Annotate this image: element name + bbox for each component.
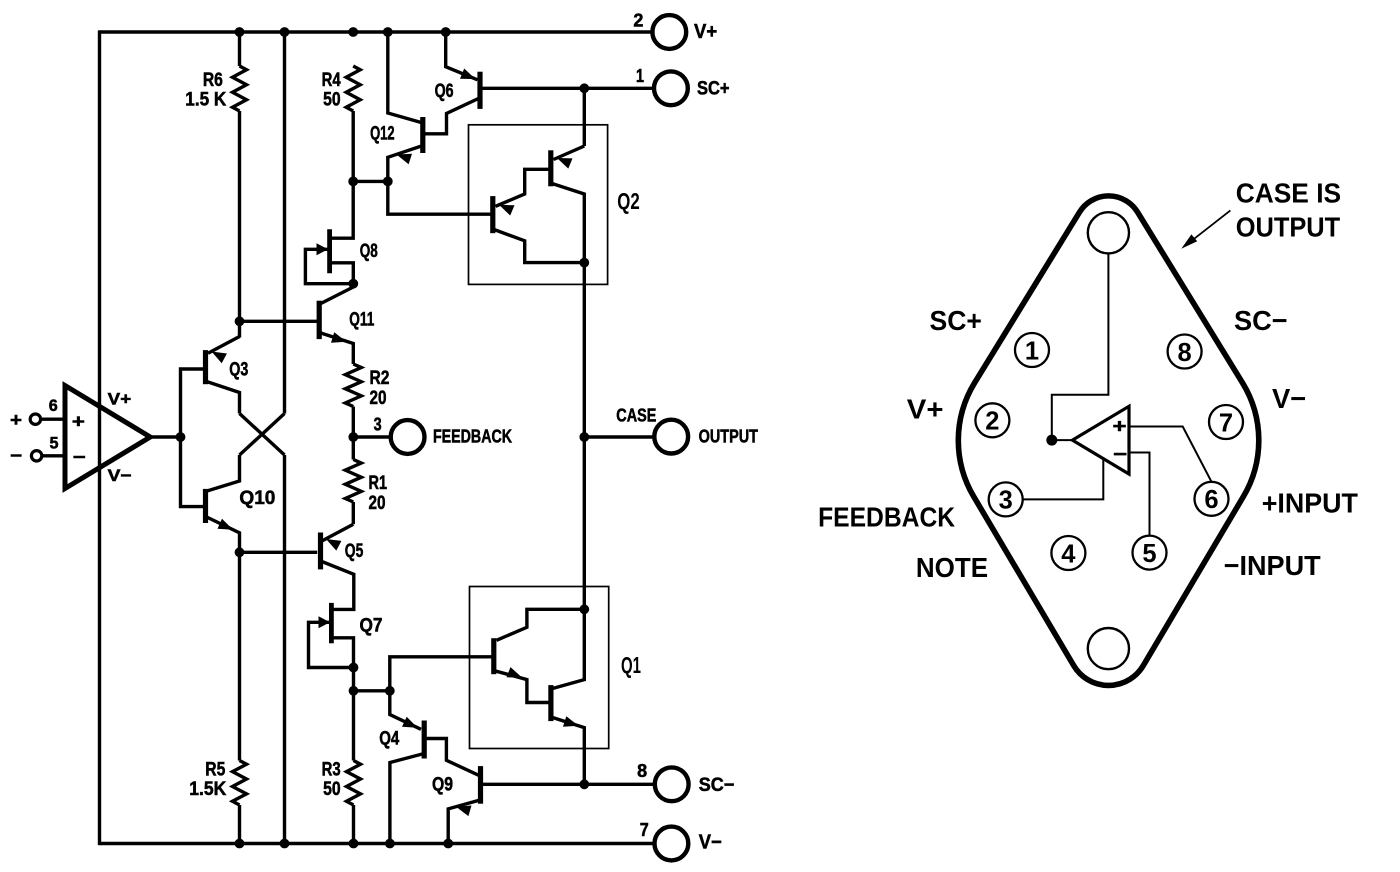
arrow Q1b emitter xyxy=(563,716,579,727)
label Q10 xyxy=(239,488,275,509)
wire rail2 upper xyxy=(283,32,286,414)
svg-text:Q9: Q9 xyxy=(432,775,453,796)
transistor Q1a bar xyxy=(491,638,496,674)
transistor Q8 channel bar xyxy=(327,229,332,273)
terminal pin 3 FEEDBACK xyxy=(374,415,425,454)
svg-text:3: 3 xyxy=(999,487,1013,515)
wire V- bottom rail xyxy=(100,842,656,845)
svg-text:Q7: Q7 xyxy=(360,616,383,637)
wire case to opamp xyxy=(1052,253,1109,440)
terminal pin 2 V+ xyxy=(633,11,686,49)
node opamp out junction xyxy=(176,432,186,442)
wire Q7 gate loop xyxy=(309,622,354,667)
wire R5 top xyxy=(238,552,241,760)
wire Q10 emitter xyxy=(207,517,240,552)
wire R5 bottom xyxy=(238,805,241,844)
svg-text:R3: R3 xyxy=(322,759,341,780)
svg-text:SC−: SC− xyxy=(699,775,735,796)
arrow Q8 gate xyxy=(317,243,329,255)
node Q4 junction xyxy=(385,686,395,696)
svg-text:2: 2 xyxy=(633,11,643,31)
arrow Q4 emitter xyxy=(402,717,418,728)
svg-text:Q10: Q10 xyxy=(239,488,275,509)
label CASE xyxy=(616,406,656,426)
resistor R4 xyxy=(346,66,360,111)
pin 5 xyxy=(1133,536,1167,570)
wire Q5 base xyxy=(240,551,318,554)
pin 8 xyxy=(1168,335,1202,369)
svg-text:−: − xyxy=(10,446,22,466)
svg-text:SC+: SC+ xyxy=(697,79,730,100)
node feedback junction xyxy=(348,432,358,442)
transistor Q3 bar xyxy=(203,350,208,384)
wire Q4 collector xyxy=(390,754,424,844)
node rail2 bottom xyxy=(280,839,290,849)
label pkg -INPUT xyxy=(1224,550,1321,581)
arrow Q7 gate xyxy=(319,616,331,628)
label R5 value 1.5K xyxy=(189,779,226,800)
arrow Q11 emitter xyxy=(331,332,347,343)
svg-text:V−: V− xyxy=(1272,383,1306,414)
wire cross D2 xyxy=(240,414,285,456)
node opamp apex dot xyxy=(1046,435,1057,446)
svg-text:2: 2 xyxy=(985,408,999,436)
node SC- junction xyxy=(579,779,589,789)
svg-text:R6: R6 xyxy=(203,70,223,91)
box Q1 xyxy=(470,587,609,749)
resistor R3 xyxy=(347,761,361,806)
wire bias link xyxy=(354,689,390,692)
svg-text:R1: R1 xyxy=(369,473,388,494)
svg-text:FEEDBACK: FEEDBACK xyxy=(433,426,512,447)
node R4 top xyxy=(348,27,358,37)
mounting hole top xyxy=(1088,212,1129,253)
label opamp V- xyxy=(108,466,132,485)
label OUTPUT pkg xyxy=(1236,211,1341,242)
wire Q10 base xyxy=(181,437,205,507)
wire Q2a base to Q2b xyxy=(496,169,551,206)
wire Q12 emitter xyxy=(388,146,422,181)
label opamp - xyxy=(73,447,86,467)
label Q1 xyxy=(621,652,641,678)
label V+ xyxy=(694,21,717,43)
svg-text:V+: V+ xyxy=(694,21,717,43)
wire Q1b emitter xyxy=(553,718,585,785)
transistor Q5 bar xyxy=(318,533,323,570)
svg-text:FEEDBACK: FEEDBACK xyxy=(818,501,955,532)
arrow Q1a emitter xyxy=(507,667,523,677)
terminal pin 7 V- xyxy=(640,820,689,860)
arrow Q6 emitter xyxy=(460,69,476,80)
wire Q2b collector xyxy=(494,230,584,263)
label Q2 xyxy=(617,188,640,214)
svg-text:Q12: Q12 xyxy=(370,123,395,144)
svg-text:V+: V+ xyxy=(907,394,944,425)
label pkg SC- xyxy=(1234,305,1288,336)
svg-text:7: 7 xyxy=(640,820,649,840)
label Q5 xyxy=(345,541,364,562)
pin 6 xyxy=(1195,482,1229,516)
wire Q1a collector xyxy=(497,609,585,640)
svg-text:50: 50 xyxy=(323,779,341,800)
transistor Q1b bar xyxy=(548,685,553,721)
label FEEDBACK xyxy=(433,426,512,447)
svg-text:OUTPUT: OUTPUT xyxy=(1236,211,1341,242)
label pin 6 xyxy=(49,396,58,415)
wire Q5 emitter xyxy=(322,524,353,541)
svg-text:+: + xyxy=(10,410,22,430)
svg-text:1.5K: 1.5K xyxy=(189,779,226,800)
op-amp U1 triangle xyxy=(65,386,150,489)
svg-text:CASE: CASE xyxy=(616,406,656,426)
wire Q5 collector xyxy=(322,562,354,610)
svg-text:V+: V+ xyxy=(108,389,132,408)
wire SC+ lead xyxy=(482,87,655,90)
svg-text:Q5: Q5 xyxy=(345,541,364,562)
label pin 5 xyxy=(50,433,59,452)
label R6 xyxy=(203,70,223,91)
node output junction xyxy=(579,432,589,442)
svg-text:R2: R2 xyxy=(370,368,390,389)
wire apex link xyxy=(1052,439,1073,441)
node Q8 drain junction xyxy=(348,177,358,187)
resistor R2 xyxy=(345,364,361,407)
wire rail2 lower xyxy=(283,455,286,844)
wire opamp output xyxy=(150,435,180,438)
wire Q9 emitter xyxy=(448,800,482,844)
wire R2-R1 link xyxy=(352,407,355,460)
label opamp V+ xyxy=(108,389,132,408)
svg-text:Q11: Q11 xyxy=(349,309,374,330)
svg-text:8: 8 xyxy=(1178,339,1192,367)
svg-text:1: 1 xyxy=(636,66,644,86)
svg-text:−: − xyxy=(1113,445,1127,466)
wire noninv input xyxy=(41,418,65,421)
wire Q3 collector xyxy=(207,382,240,414)
wire Q3 emitter xyxy=(208,337,240,354)
node R5 bottom xyxy=(235,839,245,849)
node Q12 top xyxy=(383,27,393,37)
label CASE IS xyxy=(1236,177,1341,208)
op-amp input - terminal xyxy=(10,446,42,466)
wire Q9 collector xyxy=(483,783,656,786)
svg-text:50: 50 xyxy=(323,89,341,110)
wire Q3 base xyxy=(181,369,206,437)
svg-text:V−: V− xyxy=(699,832,722,854)
label Q7 xyxy=(360,616,383,637)
wire inv input xyxy=(42,454,65,457)
svg-text:−INPUT: −INPUT xyxy=(1224,550,1321,581)
wire Q7 source xyxy=(333,638,354,668)
label R1 value 20 xyxy=(369,493,386,514)
transistor Q6 bar xyxy=(477,72,482,109)
wire R3 upper xyxy=(352,691,355,761)
wire feedback lead xyxy=(353,435,391,438)
wire Q4 emitter xyxy=(390,691,421,730)
svg-text:Q3: Q3 xyxy=(229,359,248,380)
svg-text:6: 6 xyxy=(1204,486,1218,514)
wire V+ top rail xyxy=(100,30,653,33)
svg-text:20: 20 xyxy=(369,493,386,514)
svg-text:+: + xyxy=(1113,416,1127,437)
node rail2 top xyxy=(280,27,290,37)
label opamp + xyxy=(72,411,85,431)
arrow Q2 upper emitter xyxy=(557,158,573,169)
op-amp input + terminal xyxy=(10,410,41,430)
node R6 top xyxy=(235,27,245,37)
node R3 top junction xyxy=(349,686,359,696)
svg-text:1: 1 xyxy=(1025,337,1039,365)
pin 7 xyxy=(1209,405,1243,439)
svg-text:8: 8 xyxy=(637,761,647,781)
label R2 value 20 xyxy=(370,388,387,409)
wire Q2 upper emitter xyxy=(554,146,585,160)
arrow Q12 emitter xyxy=(397,154,413,165)
label Q12 xyxy=(370,123,395,144)
wire R4-Q12 link xyxy=(353,180,388,183)
label R5 xyxy=(205,759,225,780)
wire R1 bottom xyxy=(352,502,355,524)
label Q11 xyxy=(349,309,374,330)
op-amp pkg triangle xyxy=(1072,406,1129,474)
svg-text:1.5 K: 1.5 K xyxy=(185,89,226,110)
svg-text:R4: R4 xyxy=(322,70,341,91)
node R3 bottom xyxy=(349,839,359,849)
label pkg FEEDBACK xyxy=(818,501,955,532)
wire Q12 collector xyxy=(388,32,421,123)
arrow Q10 emitter xyxy=(218,519,234,530)
svg-text:SC−: SC− xyxy=(1234,305,1288,336)
wire Q8 drain xyxy=(331,181,353,238)
transistor Q11 bar xyxy=(317,301,322,339)
wire Q10 collector xyxy=(207,455,240,491)
label R3 xyxy=(322,759,341,780)
label R1 xyxy=(369,473,388,494)
wire Q11 base xyxy=(241,320,317,323)
wire Q6 base xyxy=(480,87,482,90)
svg-text:−: − xyxy=(73,447,86,467)
label R6 value 1.5 K xyxy=(185,89,226,110)
svg-text:Q6: Q6 xyxy=(435,81,454,102)
svg-text:SC+: SC+ xyxy=(930,305,982,336)
wire R6 top xyxy=(238,32,241,66)
mounting hole bottom xyxy=(1088,628,1129,669)
label V- xyxy=(699,832,722,854)
wire output lead xyxy=(584,435,652,438)
arrow Q9 emitter xyxy=(456,806,472,817)
wire Q8 source xyxy=(331,263,354,284)
wire R6 bottom rail xyxy=(238,111,241,338)
label R2 xyxy=(370,368,390,389)
svg-text:5: 5 xyxy=(50,433,59,452)
svg-text:R5: R5 xyxy=(205,759,225,780)
transistor Q2b bar xyxy=(490,196,495,233)
label Q9 xyxy=(432,775,453,796)
node Q11 base junction xyxy=(235,316,245,326)
svg-text:OUTPUT: OUTPUT xyxy=(699,425,759,446)
svg-text:5: 5 xyxy=(1142,540,1156,568)
wire cross D1 xyxy=(240,414,285,456)
wire SC+ to Q2 xyxy=(583,88,586,146)
label OUTPUT xyxy=(699,425,759,446)
svg-text:7: 7 xyxy=(1219,409,1233,437)
transistor Q4 bar xyxy=(422,721,427,759)
wire Q2 base feed xyxy=(388,181,491,214)
wire Q11 emitter xyxy=(321,333,354,364)
label SC- xyxy=(699,775,735,796)
svg-text:6: 6 xyxy=(49,396,58,415)
label pkg NOTE xyxy=(916,552,988,583)
label pkg V+ xyxy=(907,394,944,425)
node Q2 collector junction xyxy=(579,258,589,268)
label Q6 xyxy=(435,81,454,102)
svg-text:4: 4 xyxy=(1061,540,1076,568)
transistor Q10 bar xyxy=(203,489,208,523)
terminal pin 8 SC- xyxy=(637,761,689,801)
svg-text:Q1: Q1 xyxy=(621,652,641,678)
wire Q11 collector xyxy=(321,284,354,304)
wire Q2a collector xyxy=(552,184,584,263)
TO-3 case outline xyxy=(958,196,1258,686)
label pkg +INPUT xyxy=(1262,487,1358,518)
svg-text:CASE IS: CASE IS xyxy=(1236,177,1341,208)
node Q12 emitter junction xyxy=(383,177,393,187)
node SC+ junction xyxy=(579,83,589,93)
svg-text:Q8: Q8 xyxy=(360,241,378,262)
svg-text:3: 3 xyxy=(374,415,382,435)
wire Q4 base xyxy=(424,739,478,776)
wire Q1 base feed xyxy=(390,657,492,691)
resistor R1 xyxy=(345,460,361,503)
box Q2 xyxy=(469,125,608,285)
arrow Q2b emitter xyxy=(499,205,515,216)
label pkg opamp - xyxy=(1113,445,1127,466)
svg-text:+: + xyxy=(72,411,85,431)
svg-text:V−: V− xyxy=(108,466,132,485)
wire pin6 to opamp xyxy=(1129,427,1212,482)
node Q7 source junction xyxy=(349,663,359,673)
pin 3 xyxy=(989,482,1023,516)
wire R3 bottom xyxy=(352,805,355,844)
svg-text:20: 20 xyxy=(370,388,387,409)
node Q1 collector junction xyxy=(579,604,589,614)
svg-text:+INPUT: +INPUT xyxy=(1262,487,1358,518)
label pkg SC+ xyxy=(930,305,982,336)
label R4 xyxy=(322,70,341,91)
wire Q2 to output xyxy=(583,263,586,610)
label R4 value 50 xyxy=(323,89,341,110)
node Q4 collector bottom xyxy=(385,839,395,849)
svg-text:Q4: Q4 xyxy=(379,729,399,750)
transistor Q2a bar xyxy=(548,150,553,186)
label pkg V- xyxy=(1272,383,1306,414)
node Q10 emitter junction xyxy=(235,547,245,557)
arrow case pointer xyxy=(1181,210,1230,248)
wire Q6 emitter xyxy=(446,32,478,80)
wire pin5 to opamp xyxy=(1129,453,1150,536)
arrow Q3 emitter xyxy=(212,352,227,364)
label Q3 xyxy=(229,359,248,380)
wire pin3 to opamp xyxy=(1023,459,1104,500)
label pkg opamp + xyxy=(1113,416,1127,437)
wire Q6 collector xyxy=(424,98,480,134)
wire left rail xyxy=(98,30,101,845)
terminal CASE OUTPUT xyxy=(654,420,688,454)
pin 2 xyxy=(975,403,1009,437)
svg-text:Q2: Q2 xyxy=(617,188,640,214)
node Q6 emitter top xyxy=(441,27,451,37)
node Q9 emitter bottom xyxy=(443,839,453,849)
label SC+ xyxy=(697,79,730,100)
transistor Q7 channel bar xyxy=(329,603,334,643)
wire Q7-R3 link xyxy=(352,668,355,691)
node Q8 source junction xyxy=(348,279,358,289)
resistor R5 xyxy=(233,761,247,806)
label Q4 xyxy=(379,729,399,750)
transistor Q12 bar xyxy=(420,117,425,153)
pin 1 xyxy=(1015,333,1049,367)
label Q8 xyxy=(360,241,378,262)
wire R4 bottom xyxy=(352,111,355,181)
wire Q1a emitter to Q1b xyxy=(496,671,550,703)
transistor Q9 bar xyxy=(478,766,483,804)
arrow Q5 emitter xyxy=(326,539,341,551)
pin 4 xyxy=(1051,536,1085,570)
svg-text:NOTE: NOTE xyxy=(916,552,988,583)
resistor R6 xyxy=(233,66,247,111)
wire Q8 gate loop xyxy=(305,249,353,283)
label R3 value 50 xyxy=(323,779,341,800)
terminal pin 1 SC+ xyxy=(636,66,688,105)
wire Q1b collector xyxy=(553,611,585,689)
